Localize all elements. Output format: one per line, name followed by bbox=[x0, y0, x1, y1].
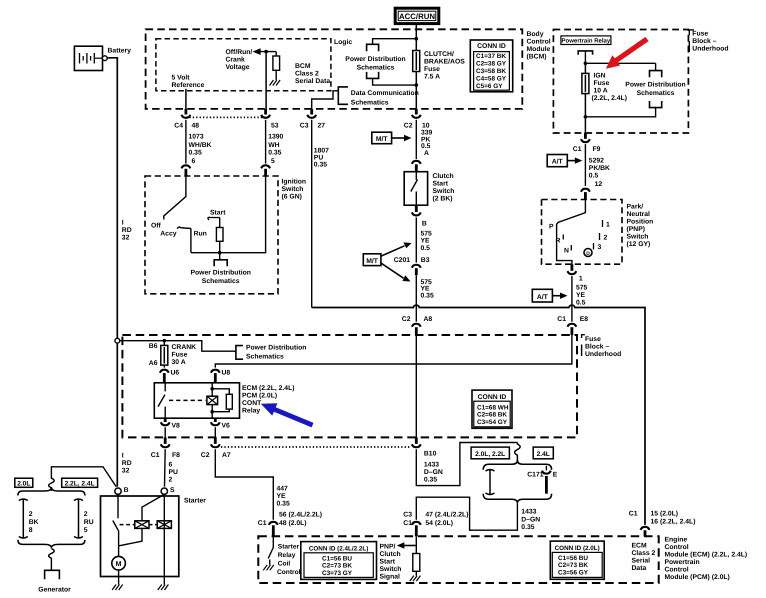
svg-text:2.0L: 2.0L bbox=[17, 480, 30, 487]
svg-text:575: 575 bbox=[421, 230, 433, 237]
connector C1/F8 below fuse block bbox=[151, 437, 180, 459]
label Fuse Block - Underhood (middle) bbox=[582, 335, 622, 358]
battery B+ bbox=[74, 46, 131, 70]
svg-text:RU: RU bbox=[84, 519, 94, 526]
option left branch bar bbox=[486, 469, 495, 495]
junction Off/Run bbox=[264, 50, 268, 54]
svg-text:CLUTCH/: CLUTCH/ bbox=[424, 51, 454, 58]
svg-text:A/T: A/T bbox=[552, 159, 564, 166]
label 1 RD 32 (lower) bbox=[122, 453, 132, 475]
option box 2.2L, 2.4L bbox=[62, 478, 98, 487]
svg-text:Neutral: Neutral bbox=[627, 211, 651, 218]
svg-text:6: 6 bbox=[192, 158, 196, 165]
svg-text:C3: C3 bbox=[300, 123, 309, 130]
blue arrow annotation bbox=[261, 403, 314, 427]
wire E8 to relay coil U8 bbox=[215, 335, 572, 368]
svg-text:2.0L, 2.2L: 2.0L, 2.2L bbox=[475, 451, 505, 458]
A/T tag upper bbox=[547, 155, 582, 167]
svg-text:N: N bbox=[564, 248, 569, 255]
svg-text:(12 GY): (12 GY) bbox=[627, 241, 651, 248]
branch to power distribution capsule (fuse block) bbox=[585, 62, 655, 64]
svg-text:1390: 1390 bbox=[268, 133, 283, 140]
svg-text:Power Distribution: Power Distribution bbox=[345, 56, 405, 63]
svg-text:Switch: Switch bbox=[282, 186, 304, 193]
generator option hook bbox=[49, 478, 55, 491]
svg-text:0.5: 0.5 bbox=[589, 173, 599, 180]
svg-text:E: E bbox=[553, 472, 558, 479]
svg-text:0.35: 0.35 bbox=[189, 150, 202, 157]
option box 2.0L bbox=[15, 478, 33, 487]
svg-text:M: M bbox=[116, 561, 122, 568]
svg-text:F8: F8 bbox=[172, 452, 180, 459]
svg-text:WH: WH bbox=[268, 142, 279, 149]
svg-text:BCM: BCM bbox=[295, 63, 311, 70]
solenoid dashed link bbox=[120, 524, 135, 526]
wire 1433 D-GN 0.35 (to PCM) bbox=[416, 497, 540, 531]
svg-text:Clutch: Clutch bbox=[433, 173, 454, 180]
svg-text:Park/: Park/ bbox=[627, 204, 644, 211]
svg-text:CRANK: CRANK bbox=[172, 344, 197, 351]
starter relay coil control driver bbox=[268, 536, 273, 565]
Powertrain Relay label box bbox=[561, 36, 611, 45]
svg-text:IGN: IGN bbox=[594, 73, 606, 80]
connector pin 12 into PNP switch bbox=[581, 189, 590, 200]
svg-text:I: I bbox=[122, 453, 124, 460]
ignition resistor bbox=[216, 218, 223, 253]
svg-text:Module: Module bbox=[527, 46, 551, 53]
svg-text:S: S bbox=[170, 487, 175, 494]
svg-text:C3=56 GY: C3=56 GY bbox=[558, 569, 589, 576]
svg-text:C2: C2 bbox=[201, 452, 210, 459]
svg-text:0.35: 0.35 bbox=[521, 524, 534, 531]
svg-text:C1: C1 bbox=[403, 520, 412, 527]
Start contact bbox=[208, 217, 220, 220]
svg-text:D–GN: D–GN bbox=[521, 517, 540, 524]
svg-text:15 (2.0L): 15 (2.0L) bbox=[651, 511, 679, 518]
svg-text:Signal: Signal bbox=[380, 573, 401, 580]
wire 339 PK 0.5 bbox=[416, 120, 432, 159]
option top brace bbox=[483, 460, 551, 470]
Power Distribution ref bracket (ignition) bbox=[190, 253, 250, 285]
svg-text:R: R bbox=[556, 238, 561, 245]
connector C3/C1 into PCM bbox=[403, 512, 468, 537]
svg-text:Module (PCM) (2.0L): Module (PCM) (2.0L) bbox=[665, 574, 730, 581]
wire 5V ref down bbox=[185, 89, 187, 110]
svg-text:U6: U6 bbox=[171, 370, 180, 377]
inline connector C171 pin E (2.4L branch) bbox=[527, 466, 558, 494]
svg-text:D–GN: D–GN bbox=[424, 469, 443, 476]
svg-text:5: 5 bbox=[271, 158, 275, 165]
connector V6 below relay bbox=[211, 418, 230, 437]
label Starter Relay Coil Control bbox=[277, 544, 301, 577]
svg-text:Switch: Switch bbox=[627, 234, 649, 241]
BCM logic inner dashed box bbox=[156, 39, 331, 91]
label Fuse Block - Underhood (top right) bbox=[689, 30, 728, 53]
svg-text:C1: C1 bbox=[629, 511, 638, 518]
svg-text:56 (2.4L/2.2L): 56 (2.4L/2.2L) bbox=[279, 511, 322, 518]
svg-text:C3=73 GY: C3=73 GY bbox=[322, 570, 353, 577]
svg-text:0.35: 0.35 bbox=[421, 292, 434, 299]
PNP wiper and contacts bbox=[549, 200, 610, 265]
red arrow annotation bbox=[606, 37, 649, 69]
svg-text:C2=73 BK: C2=73 BK bbox=[558, 562, 588, 569]
generator bottom hook bbox=[49, 549, 55, 559]
svg-text:Block –: Block – bbox=[692, 38, 716, 45]
svg-text:Underhood: Underhood bbox=[585, 351, 621, 358]
CONN ID table (2.0L) bbox=[550, 541, 604, 579]
generator right option bar bbox=[74, 499, 83, 539]
svg-text:(PNP): (PNP) bbox=[627, 226, 646, 233]
svg-text:(2.2L, 2.4L): (2.2L, 2.4L) bbox=[592, 95, 628, 102]
svg-text:C3: C3 bbox=[403, 512, 412, 519]
svg-text:CONN ID: CONN ID bbox=[478, 394, 507, 401]
label Park/Neutral Position (PNP) Switch (12 GY) bbox=[627, 204, 654, 249]
generator bottom brace bbox=[18, 540, 85, 548]
junction to CRANK fuse bbox=[163, 339, 167, 343]
svg-text:Voltage: Voltage bbox=[226, 64, 250, 71]
label 2 BK 8 bbox=[29, 511, 39, 534]
svg-text:A6: A6 bbox=[149, 360, 158, 367]
CRANK fuse 30A B6/A6 bbox=[149, 341, 196, 368]
svg-text:C2=73 BK: C2=73 BK bbox=[322, 563, 352, 570]
svg-text:A8: A8 bbox=[424, 316, 433, 323]
svg-text:C2=68 BK: C2=68 BK bbox=[477, 412, 507, 419]
generator top wire bbox=[51, 467, 116, 487]
svg-text:P: P bbox=[549, 224, 554, 231]
label ECM/PCM CONT Relay bbox=[242, 385, 295, 415]
label Body Control Module (BCM) bbox=[527, 31, 551, 61]
svg-text:Data: Data bbox=[632, 565, 647, 572]
solenoid hold-in winding bbox=[157, 521, 171, 529]
Accy contact bbox=[177, 227, 191, 229]
svg-text:Powertrain Relay: Powertrain Relay bbox=[562, 38, 611, 45]
svg-text:5: 5 bbox=[84, 527, 88, 534]
wire ACC/RUN feed down to C2 bbox=[415, 85, 417, 109]
svg-text:1433: 1433 bbox=[521, 509, 536, 516]
PCM input resistor bbox=[413, 536, 420, 575]
Power Distribution ref bracket (crank) bbox=[236, 345, 307, 361]
svg-text:Module (ECM) (2.2L, 2.4L): Module (ECM) (2.2L, 2.4L) bbox=[665, 552, 748, 559]
junction relay output bbox=[584, 62, 588, 66]
svg-text:Off: Off bbox=[151, 223, 162, 230]
Power Distribution Schematics capsule (fuse block) bbox=[585, 63, 685, 117]
svg-text:54 (2.0L): 54 (2.0L) bbox=[425, 520, 453, 527]
ignition switch dashed box bbox=[145, 176, 278, 294]
svg-text:C1: C1 bbox=[557, 316, 566, 323]
svg-text:32: 32 bbox=[122, 235, 130, 242]
Data Communication Schematics ref bracket bbox=[338, 87, 348, 104]
arrow PNP signal bbox=[397, 542, 417, 548]
svg-text:A/T: A/T bbox=[537, 294, 549, 301]
svg-text:(BCM): (BCM) bbox=[527, 54, 547, 61]
svg-text:Powertrain: Powertrain bbox=[665, 559, 700, 566]
connector C1 serial data into PCM bbox=[629, 511, 696, 537]
CLUTCH/BRAKE/AOS fuse 7.5A bbox=[413, 39, 466, 85]
ground (starter motor) bbox=[112, 585, 123, 591]
svg-text:Fuse: Fuse bbox=[424, 66, 440, 73]
svg-text:C2: C2 bbox=[404, 123, 413, 130]
svg-text:5 Volt: 5 Volt bbox=[172, 75, 191, 82]
svg-text:Engine: Engine bbox=[665, 537, 688, 544]
svg-text:Start: Start bbox=[380, 558, 396, 565]
Run contact wire bbox=[190, 229, 192, 253]
svg-text:Run: Run bbox=[194, 231, 207, 238]
label Ignition Switch (6 GN) bbox=[282, 179, 307, 201]
label Engine Control Module / Powertrain Control Module bbox=[665, 537, 748, 582]
svg-text:447: 447 bbox=[277, 486, 289, 493]
svg-text:YE: YE bbox=[421, 237, 431, 244]
connector C2/A7 below fuse block bbox=[201, 437, 231, 459]
svg-text:2: 2 bbox=[169, 477, 173, 484]
svg-text:Class 2: Class 2 bbox=[632, 550, 656, 557]
svg-text:CONT: CONT bbox=[242, 400, 262, 407]
label 1 RD 32 (upper) bbox=[122, 220, 132, 242]
svg-text:Control: Control bbox=[527, 39, 551, 46]
wire 1390 WH 0.35 bbox=[266, 120, 284, 165]
svg-text:339: 339 bbox=[421, 129, 433, 136]
ignition bottom wire to pin 5 bbox=[191, 176, 266, 253]
svg-text:Schematics: Schematics bbox=[202, 278, 240, 285]
svg-text:2: 2 bbox=[604, 235, 608, 242]
wire 575 YE 0.5 bbox=[416, 217, 432, 262]
Power Distribution Schematics capsule (BCM) bbox=[345, 39, 416, 85]
starter motor M bbox=[112, 546, 126, 585]
M/T tag upper bbox=[372, 132, 412, 144]
splice tap circle to CRANK fuse bbox=[115, 338, 120, 343]
svg-text:A7: A7 bbox=[222, 452, 231, 459]
clutch start switch (2 BK) bbox=[404, 172, 454, 206]
svg-text:BK: BK bbox=[29, 519, 39, 526]
IGN fuse 10A bbox=[582, 63, 627, 133]
svg-text:0.5: 0.5 bbox=[421, 245, 431, 252]
svg-text:Data Communication: Data Communication bbox=[351, 90, 419, 97]
svg-text:C4=58 GY: C4=58 GY bbox=[476, 75, 507, 82]
svg-text:10 A: 10 A bbox=[594, 88, 608, 95]
label 2 RU 5 bbox=[84, 511, 94, 534]
svg-text:47 (2.4L/2.2L): 47 (2.4L/2.2L) bbox=[425, 512, 468, 519]
ground in BCM bbox=[270, 80, 281, 86]
generator ref bracket bbox=[45, 570, 60, 579]
svg-text:Fuse: Fuse bbox=[172, 352, 188, 359]
wire from ACC/RUN into BCM bbox=[415, 24, 417, 39]
wire 5292 PK/BK 0.5 bbox=[585, 144, 610, 188]
svg-text:0.35: 0.35 bbox=[424, 476, 437, 483]
node B terminal bbox=[115, 487, 129, 494]
svg-text:Ignition: Ignition bbox=[282, 179, 307, 186]
svg-text:Clutch: Clutch bbox=[380, 551, 401, 558]
svg-text:ECM (2.2L, 2.4L): ECM (2.2L, 2.4L) bbox=[242, 385, 295, 392]
svg-text:Power Distribution: Power Distribution bbox=[190, 270, 250, 277]
svg-text:Schematics: Schematics bbox=[637, 90, 675, 97]
svg-text:0.35: 0.35 bbox=[314, 161, 327, 168]
svg-text:B3: B3 bbox=[421, 257, 430, 264]
junction node top bbox=[415, 37, 419, 41]
junction in ignition switch bbox=[218, 251, 222, 255]
svg-text:PNP/: PNP/ bbox=[380, 543, 396, 550]
connector pin A into clutch start switch bbox=[412, 161, 421, 172]
solenoid feed from S bbox=[142, 494, 164, 520]
svg-text:C3=58 BK: C3=58 BK bbox=[476, 68, 506, 75]
connector C4 pin 48 (BCM) bbox=[174, 109, 199, 130]
class 2 serial data bus wire bbox=[312, 305, 645, 525]
connector B10 below fuse block bbox=[412, 437, 437, 457]
engine option hook (D-GN split) bbox=[515, 443, 521, 463]
svg-text:48 (2.0L): 48 (2.0L) bbox=[279, 520, 307, 527]
svg-text:Starter: Starter bbox=[278, 544, 300, 551]
option box 2.0L, 2.2L bbox=[471, 447, 509, 459]
svg-text:V6: V6 bbox=[222, 423, 231, 430]
connector pin 6 into ignition switch bbox=[182, 165, 191, 176]
svg-text:575: 575 bbox=[576, 284, 588, 291]
svg-text:Start: Start bbox=[210, 210, 226, 217]
5 Volt Reference label bbox=[172, 75, 205, 90]
svg-text:C1=56 BU: C1=56 BU bbox=[558, 555, 588, 562]
svg-text:Starter: Starter bbox=[184, 498, 206, 505]
svg-text:1: 1 bbox=[579, 276, 583, 283]
svg-text:C2: C2 bbox=[402, 316, 411, 323]
ECM/PCM CONT relay box bbox=[154, 383, 239, 418]
svg-text:12: 12 bbox=[595, 181, 603, 188]
svg-text:E8: E8 bbox=[580, 316, 589, 323]
PCM/ECM dashed box bbox=[258, 536, 658, 583]
svg-text:B6: B6 bbox=[149, 343, 158, 350]
svg-text:RD: RD bbox=[122, 227, 132, 234]
svg-text:7.5 A: 7.5 A bbox=[424, 74, 440, 81]
svg-text:C1: C1 bbox=[151, 452, 160, 459]
svg-text:C1=56 BU: C1=56 BU bbox=[322, 555, 352, 562]
svg-text:YE: YE bbox=[277, 493, 287, 500]
svg-text:0.5: 0.5 bbox=[576, 299, 586, 306]
svg-text:PK/BK: PK/BK bbox=[589, 165, 610, 172]
svg-text:3: 3 bbox=[598, 244, 602, 251]
svg-text:2: 2 bbox=[84, 511, 88, 518]
svg-text:PCM (2.0L): PCM (2.0L) bbox=[242, 393, 277, 400]
svg-text:30 A: 30 A bbox=[172, 359, 186, 366]
svg-text:Crank: Crank bbox=[226, 57, 245, 64]
svg-text:U8: U8 bbox=[222, 370, 231, 377]
svg-text:Logic: Logic bbox=[334, 39, 352, 46]
splice/tap from battery wire into fuse block bbox=[120, 341, 236, 352]
hold-in winding to ground wire bbox=[163, 494, 165, 576]
svg-text:Coil: Coil bbox=[278, 561, 291, 568]
svg-text:Serial: Serial bbox=[632, 558, 651, 565]
relay suppression resistor branch bbox=[212, 389, 232, 412]
relay actuator dashed link bbox=[169, 399, 206, 401]
ground (starter solenoid) bbox=[163, 577, 165, 585]
svg-text:1807: 1807 bbox=[314, 147, 329, 154]
BCM Class 2 Serial Data label bbox=[295, 63, 330, 85]
option bottom brace bbox=[483, 494, 551, 504]
svg-text:I: I bbox=[122, 220, 124, 227]
connector pin B below clutch switch bbox=[412, 205, 427, 227]
svg-text:C201: C201 bbox=[394, 257, 410, 264]
svg-text:(6 GN): (6 GN) bbox=[282, 194, 302, 201]
label ECM Class 2 Serial Data bbox=[632, 543, 656, 573]
svg-text:2.4L: 2.4L bbox=[537, 451, 550, 458]
svg-text:1: 1 bbox=[606, 222, 610, 229]
CONN ID table (fuse block) bbox=[472, 390, 512, 428]
svg-text:RD: RD bbox=[122, 460, 132, 467]
connector C1 pin F9 (fuse block) bbox=[573, 133, 601, 153]
svg-text:F9: F9 bbox=[593, 146, 601, 153]
svg-text:ECM: ECM bbox=[632, 543, 647, 550]
svg-text:CONN ID: CONN ID bbox=[477, 43, 506, 50]
connector C2 pin 10 (BCM) bbox=[404, 109, 430, 130]
connector C3 pin 27 (BCM) bbox=[300, 109, 325, 130]
svg-text:C1: C1 bbox=[573, 146, 582, 153]
svg-text:B10: B10 bbox=[424, 451, 437, 458]
svg-text:Relay: Relay bbox=[242, 408, 260, 415]
svg-text:Start: Start bbox=[433, 181, 449, 188]
inline connector C201 pin B3 bbox=[394, 257, 430, 275]
starter box bbox=[101, 496, 179, 577]
wire battery to starter B (1 RD 32) bbox=[107, 58, 117, 487]
label PNP/Clutch Start Switch Signal bbox=[380, 543, 402, 580]
ground (PCM input) bbox=[410, 576, 421, 582]
svg-text:A: A bbox=[424, 150, 429, 157]
connector pin 53 (BCM) bbox=[261, 109, 279, 130]
connector C1/E8 into fuse block bbox=[557, 316, 588, 335]
svg-text:Fuse: Fuse bbox=[585, 336, 601, 343]
svg-text:Schematics: Schematics bbox=[351, 99, 389, 106]
ignition switch wiper from pin 6 bbox=[164, 176, 186, 220]
generator left option bar bbox=[19, 499, 28, 539]
svg-text:Battery: Battery bbox=[108, 48, 132, 55]
wire to generator bbox=[50, 558, 52, 571]
svg-text:2.2L, 2.4L: 2.2L, 2.4L bbox=[65, 480, 95, 487]
pull-in winding to motor node bbox=[119, 528, 142, 545]
svg-text:BRAKE/AOS: BRAKE/AOS bbox=[424, 59, 465, 66]
svg-text:WH/BK: WH/BK bbox=[189, 142, 212, 149]
svg-text:C5=6 GY: C5=6 GY bbox=[476, 83, 503, 90]
C2 connector dotted group line bbox=[221, 446, 411, 448]
svg-text:C2=38 GY: C2=38 GY bbox=[476, 61, 507, 68]
svg-text:CONN ID (2.0L): CONN ID (2.0L) bbox=[555, 545, 600, 552]
arrow to Off/Run label bbox=[253, 48, 261, 55]
svg-text:53: 53 bbox=[271, 123, 279, 130]
connector V8 below relay bbox=[161, 418, 180, 437]
relay coil bbox=[207, 383, 218, 418]
svg-text:1433: 1433 bbox=[424, 462, 439, 469]
svg-text:YE: YE bbox=[576, 292, 586, 299]
svg-text:Relay: Relay bbox=[278, 552, 296, 559]
svg-text:48: 48 bbox=[192, 123, 200, 130]
svg-text:1073: 1073 bbox=[189, 133, 204, 140]
svg-text:6: 6 bbox=[169, 462, 173, 469]
svg-text:32: 32 bbox=[122, 468, 130, 475]
wire 1433 D-GN 0.35 (B10 leg) bbox=[416, 443, 517, 486]
svg-text:C171: C171 bbox=[527, 472, 543, 479]
svg-text:C1=37 BK: C1=37 BK bbox=[476, 53, 506, 60]
CONN ID table (BCM) bbox=[470, 40, 512, 92]
connector C2/A8 into fuse block bbox=[402, 316, 433, 335]
powertrain relay ref bracket bbox=[578, 51, 592, 63]
svg-text:Power Distribution: Power Distribution bbox=[246, 345, 306, 352]
svg-text:C3=54 GY: C3=54 GY bbox=[477, 419, 508, 426]
generator top brace bbox=[18, 488, 85, 496]
wire A8 to B10 inside fuse block bbox=[415, 335, 417, 437]
svg-text:M/T: M/T bbox=[366, 258, 379, 265]
svg-text:Fuse: Fuse bbox=[692, 31, 708, 38]
junction at fuse bottom bbox=[584, 115, 588, 119]
fuse block underhood dashed box (middle) bbox=[122, 335, 577, 437]
svg-text:0.5: 0.5 bbox=[421, 143, 431, 150]
svg-text:27: 27 bbox=[318, 123, 326, 130]
svg-text:M/T: M/T bbox=[376, 136, 389, 143]
wire 1807 PU 0.35 (class 2 serial data) bbox=[312, 120, 329, 308]
svg-text:C1=68 WH: C1=68 WH bbox=[477, 404, 509, 411]
svg-text:ACC/RUN: ACC/RUN bbox=[399, 12, 435, 21]
